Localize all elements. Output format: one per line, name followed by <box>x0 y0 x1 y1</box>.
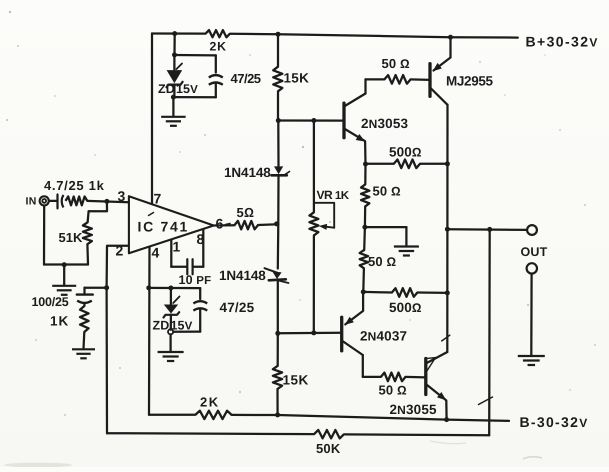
svg-text:50 Ω: 50 Ω <box>368 254 397 269</box>
wire 5R to bias column <box>258 223 278 226</box>
svg-text:15V: 15V <box>176 82 198 96</box>
wire collector to 50R <box>366 78 385 80</box>
node junction pot bottom <box>311 330 316 335</box>
node junction pin4 / zener2 rail <box>146 285 151 290</box>
wire jack to cap <box>49 200 58 202</box>
wire pin2 node to 100/25 <box>85 287 107 289</box>
resistor 15K (top) <box>277 34 279 67</box>
node junction 500R / right column <box>445 161 450 166</box>
node junction top rail / 15K column <box>276 32 281 37</box>
capacitor C 47/25 (bottom) <box>199 288 201 299</box>
svg-text:47/25: 47/25 <box>220 300 255 315</box>
resistor 1K feedback <box>80 306 89 332</box>
resistor 51K <box>88 211 89 222</box>
wire left vertical to op-amp pin 7 <box>151 34 153 204</box>
node junction right column / OUT <box>445 227 450 232</box>
wire jack ground drop <box>43 206 45 265</box>
node junction zener2 top <box>168 286 173 291</box>
svg-text:2N4037: 2N4037 <box>360 329 407 344</box>
node junction input / 51K <box>104 199 109 204</box>
op-amp IC741 U1 triangle <box>129 196 214 253</box>
wire bias bottom to 2N4037 base <box>278 332 342 335</box>
svg-text:50 Ω: 50 Ω <box>379 383 408 398</box>
svg-text:1K: 1K <box>50 314 69 329</box>
svg-text:ZD: ZD <box>153 319 170 333</box>
node zener2 bottom <box>168 329 173 334</box>
wire right column (collector bus) <box>446 105 448 352</box>
wire center column lower <box>277 280 279 334</box>
resistor 15K (bottom) <box>277 333 279 366</box>
wire pot column lower <box>313 235 315 333</box>
svg-text:2K: 2K <box>210 40 227 54</box>
ground (OUT return) <box>518 356 545 365</box>
svg-text:ZD: ZD <box>158 82 175 96</box>
resistor 2K (top) <box>206 30 230 37</box>
ground (below ZD1) <box>172 97 174 116</box>
svg-text:B-30-32V: B-30-32V <box>520 414 588 430</box>
ground (below 1K) <box>82 332 85 349</box>
wire top positive rail <box>152 32 206 34</box>
svg-text:1N4148: 1N4148 <box>224 165 271 180</box>
OUT terminal upper <box>527 225 537 235</box>
wire to pin 3 <box>87 201 129 202</box>
node junction midpoint <box>362 225 367 230</box>
node junction top rail / zener branch <box>172 31 177 36</box>
ground (midpoint) <box>405 227 407 246</box>
svg-text:VR 1K: VR 1K <box>317 188 350 202</box>
wire center column upper <box>277 91 279 120</box>
transistor Q1 2N3053 <box>342 103 345 138</box>
resistor 500R (lower) <box>363 291 392 294</box>
node junction ground bus <box>62 262 67 267</box>
wire zener branch drop <box>173 34 175 55</box>
resistor 50R upper-mid <box>364 164 366 184</box>
resistor 2K (bottom) <box>195 411 231 419</box>
wire bottom of parallel block <box>173 96 215 98</box>
wire 2N4037 collector down <box>362 355 364 377</box>
resistor 1k input <box>66 197 88 206</box>
resistor 500R (upper) <box>366 163 394 165</box>
svg-text:OUT: OUT <box>521 245 548 259</box>
wire jog down to 51K <box>89 201 107 211</box>
svg-text:MJ2955: MJ2955 <box>446 74 494 89</box>
wire 50R to base <box>411 78 430 81</box>
artifact triangle scratch <box>426 358 435 372</box>
node zener bottom junction <box>171 95 176 100</box>
resistor 5 ohm <box>235 221 259 229</box>
svg-text:100/25: 100/25 <box>32 295 69 309</box>
node junction pot top <box>311 118 316 123</box>
wire pin 1 drop <box>170 240 172 267</box>
wire input ground bus <box>44 263 88 265</box>
ground (input) <box>63 265 65 286</box>
svg-text:5Ω: 5Ω <box>237 205 255 220</box>
node junction lower emitter <box>361 289 366 294</box>
OUT terminal lower <box>527 263 537 273</box>
svg-text:15V: 15V <box>171 319 193 333</box>
svg-text:IN: IN <box>26 196 37 208</box>
svg-text:47/25: 47/25 <box>231 71 261 86</box>
wire zener2 bottom rail <box>173 330 200 332</box>
artifact slash on feedback drop <box>479 397 493 405</box>
wire bias top to 2N3053 base <box>278 119 344 121</box>
svg-text:10 PF: 10 PF <box>179 273 212 287</box>
node junction feedback takeoff <box>487 227 492 232</box>
diode D1 1N4148 <box>277 121 279 167</box>
node junction emitter / 500R <box>363 162 368 167</box>
svg-text:50 Ω: 50 Ω <box>382 56 411 71</box>
node junction pin2 / feedback column <box>104 285 109 290</box>
wire center column mid <box>277 175 279 224</box>
wire op-amp pin 4 down to negative rail <box>148 247 151 415</box>
svg-text:50 Ω: 50 Ω <box>373 184 402 199</box>
svg-text:2N3055: 2N3055 <box>390 402 437 417</box>
wire negative rail <box>149 414 195 416</box>
resistor 50R (MJ2955 base) <box>384 75 410 84</box>
wire pin 8 drop <box>202 229 204 266</box>
node junction emitter / negative rail <box>444 417 449 422</box>
wire 2N3055 emitter to negative rail <box>445 401 448 420</box>
svg-text:B+30-32V: B+30-32V <box>526 34 598 50</box>
svg-text:4.7/25 1k: 4.7/25 1k <box>44 178 105 193</box>
wire to OUT terminal <box>447 228 526 231</box>
wire feedback column down <box>105 288 108 434</box>
svg-text:4: 4 <box>152 245 160 261</box>
transistor Q2 MJ2955 <box>428 64 431 97</box>
capacitor C 47/25 (top) <box>215 55 217 72</box>
resistor 50R lower-mid <box>363 227 366 250</box>
node junction 500R lower / right column <box>445 290 450 295</box>
resistor 50R (2N3055 base) <box>381 373 406 382</box>
transistor Q3 2N4037 <box>340 317 343 351</box>
wire collector to 50R <box>363 376 381 378</box>
diode D2 1N4148 <box>277 224 280 269</box>
wire top of parallel block <box>175 54 216 57</box>
capacitor 10PF <box>171 266 187 268</box>
capacitor 100/25 <box>83 288 85 293</box>
svg-text:2N3053: 2N3053 <box>361 116 408 131</box>
svg-text:IC 741: IC 741 <box>138 219 189 235</box>
svg-text:51K: 51K <box>59 230 83 245</box>
node junction op-amp output feed <box>274 221 279 226</box>
svg-text:500Ω: 500Ω <box>389 300 422 315</box>
wire OUT lower to ground <box>530 274 533 356</box>
svg-text:6: 6 <box>216 216 224 232</box>
wire feedback bottom run <box>107 432 314 435</box>
wire 2N3053 emitter down <box>364 141 367 164</box>
artifact slash on collector bus <box>442 335 450 341</box>
svg-text:1N4148: 1N4148 <box>219 268 266 283</box>
transistor Q4 2N3055 <box>424 359 427 395</box>
svg-text:15K: 15K <box>284 71 310 86</box>
wire op-amp pin 2 stub <box>107 246 129 288</box>
wire midpoint to ground tap <box>365 226 407 228</box>
svg-text:7: 7 <box>154 191 162 207</box>
svg-text:50K: 50K <box>316 441 341 456</box>
pot wiper arm <box>314 203 334 228</box>
wire pot column upper <box>313 121 315 213</box>
svg-text:500Ω: 500Ω <box>389 145 422 160</box>
node junction top rail / MJ2955 emitter <box>448 35 453 40</box>
wire zener2 top rail <box>149 287 200 289</box>
node zener top junction <box>172 52 177 57</box>
zener diode ZD2 15V <box>170 288 172 304</box>
ground (below ZD2) <box>169 334 171 351</box>
node junction bias bottom <box>275 331 280 336</box>
input jack terminal <box>40 196 49 205</box>
node junction 15K / negative rail <box>275 412 280 417</box>
potentiometer VR 1K <box>309 212 318 235</box>
zener diode ZD1 15V <box>173 55 175 70</box>
svg-text:15K: 15K <box>283 373 309 388</box>
wire pin 6 output <box>214 224 235 226</box>
node junction bias top <box>276 118 281 123</box>
resistor 50K <box>314 430 344 438</box>
svg-text:2K: 2K <box>200 395 220 410</box>
capacitor 4.7/25 input <box>56 195 58 209</box>
svg-text:1: 1 <box>173 239 181 255</box>
wire feedback drop from OUT <box>488 229 491 435</box>
